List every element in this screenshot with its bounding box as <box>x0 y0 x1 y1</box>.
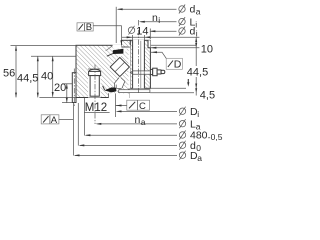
grease nipple on bore side <box>150 68 164 76</box>
row D_a <box>74 150 203 163</box>
bore step notch top right of inner ring <box>148 40 150 47</box>
roller (diamond) <box>110 57 129 76</box>
svg-text:B: B <box>86 22 92 33</box>
svg-text:20: 20 <box>54 82 66 94</box>
outer ring (left, with gear rim) hatched body <box>72 45 129 102</box>
row L_a with n_a <box>95 114 201 131</box>
svg-text:i: i <box>197 109 199 119</box>
lube channel through inner ring <box>145 71 151 74</box>
svg-text:44,5: 44,5 <box>17 73 38 85</box>
svg-text:C: C <box>139 101 146 112</box>
groove V below roller <box>114 77 125 89</box>
svg-text:D: D <box>174 59 182 71</box>
svg-text:d: d <box>190 26 196 38</box>
row d_0 <box>78 140 201 153</box>
screw M12 <box>89 69 101 96</box>
20 dim <box>62 84 72 103</box>
row D_i <box>116 106 200 119</box>
svg-text:40: 40 <box>41 71 53 83</box>
top seal (black wedge) <box>106 46 113 51</box>
40 dim <box>52 56 54 96</box>
centerlines (dash-dot) <box>74 20 138 124</box>
gear rim <box>72 73 76 103</box>
bottom labyrinth lip <box>119 90 150 93</box>
56 dim <box>11 45 77 97</box>
svg-text:44,5: 44,5 <box>187 67 208 79</box>
svg-text:10: 10 <box>201 44 213 56</box>
datum C <box>116 100 150 112</box>
svg-text:56: 56 <box>3 68 15 80</box>
top lip over seal gap <box>122 40 131 47</box>
row L_i with n_i <box>139 12 198 30</box>
svg-text:4,5: 4,5 <box>200 90 215 102</box>
svg-text:a: a <box>197 153 202 163</box>
svg-text:n: n <box>152 12 158 24</box>
d14 hole in inner ring <box>133 40 145 89</box>
groove V above roller <box>113 49 128 57</box>
svg-text:A: A <box>51 115 58 126</box>
bottom seal (black wedge) <box>104 87 116 92</box>
svg-text:i: i <box>158 15 160 25</box>
44,5 dim <box>31 56 76 97</box>
svg-text:14: 14 <box>136 25 148 37</box>
groove clearance around roller <box>109 56 131 78</box>
row d_a <box>117 4 201 17</box>
screw counterbore in outer ring <box>88 69 101 98</box>
datum B <box>77 22 122 45</box>
datum D <box>151 51 182 70</box>
seam gap between rings <box>129 45 131 89</box>
svg-text:a: a <box>196 7 201 17</box>
white slit under top lip <box>113 45 122 49</box>
row d_i <box>149 26 197 39</box>
row 480-0,5 <box>84 130 222 142</box>
datum A <box>41 115 73 126</box>
svg-text:a: a <box>141 117 146 127</box>
svg-text:i: i <box>196 29 198 39</box>
svg-text:n: n <box>135 114 141 126</box>
inner ring (right) hatched body <box>122 40 151 88</box>
bottom-right relief of outer ring <box>109 93 130 98</box>
svg-text:d: d <box>190 4 196 16</box>
svg-text:-0,5: -0,5 <box>208 132 223 142</box>
